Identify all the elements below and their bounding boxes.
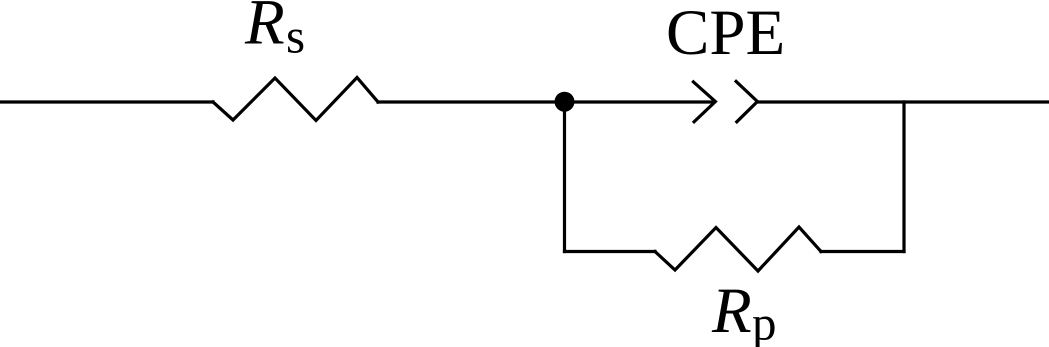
resistor R_p <box>655 227 821 271</box>
svg-text:CPE: CPE <box>666 0 785 69</box>
svg-text:R: R <box>244 0 285 58</box>
svg-text:R: R <box>711 275 752 347</box>
resistor R_s <box>213 78 378 121</box>
wire CPE output to right edge <box>757 100 1049 103</box>
wire node A down to bottom branch <box>563 102 566 252</box>
wire bottom left to R_p <box>565 250 656 253</box>
node A (junction dot) <box>555 92 575 112</box>
svg-text:p: p <box>752 295 777 347</box>
wire R_p to right vertical <box>821 250 904 253</box>
wire from R_s to node A <box>378 100 714 103</box>
wire left input <box>0 100 213 103</box>
CPE element (double chevron) <box>693 82 715 122</box>
svg-text:s: s <box>286 8 305 63</box>
wire right vertical up to junction <box>902 102 905 252</box>
